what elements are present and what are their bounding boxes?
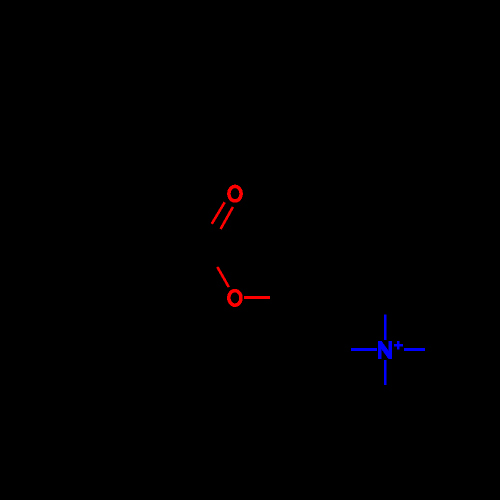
carbonyl O atom label — [229, 186, 241, 201]
N-CH3 up bond, blue half near N — [384, 314, 387, 340]
O-CH2 bond, red half near O — [244, 296, 270, 299]
CH2-N bond, black half near carbon (hidden) — [317, 348, 351, 351]
C=O double bond, red halves near O (line 1) — [212, 202, 225, 224]
C=O double bond, black halves near carbon (hidden) — [199, 224, 221, 251]
N-CH3 right bond, blue half near N — [404, 348, 425, 351]
ester O atom label — [229, 291, 241, 306]
N-CH3 right bond, black half (hidden) — [425, 348, 463, 351]
plus charge sign on N — [394, 341, 403, 350]
N-CH3 down bond, black half (hidden) — [384, 385, 387, 420]
N-CH3 up bond, black half (hidden) — [384, 276, 387, 314]
O-CH2 bond, black half near carbon (hidden) — [270, 296, 305, 299]
C=O double bond, red half (line 2) — [221, 207, 233, 229]
N-CH3 down bond, blue half near N — [384, 360, 387, 385]
CH2-CH2 bond (black, hidden) — [305, 298, 317, 350]
C-O ester bond, red half near O — [217, 267, 229, 287]
bond ring-to-carbonyl C (black, hidden) — [132, 248, 199, 265]
N+ atom label — [378, 341, 392, 359]
C-O ester bond, black half near carbon (hidden) — [206, 247, 217, 267]
CH2-N bond, blue half near N — [351, 348, 377, 351]
benzene ring (black bonds, hidden on black background) — [0, 215, 132, 348]
